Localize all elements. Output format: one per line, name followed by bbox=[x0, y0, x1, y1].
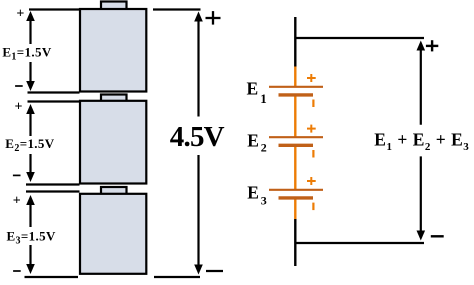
svg-text:+: + bbox=[13, 194, 21, 209]
svg-text:4.5V: 4.5V bbox=[170, 121, 225, 153]
svg-text:+: + bbox=[15, 100, 23, 115]
svg-text:+: + bbox=[16, 7, 24, 22]
